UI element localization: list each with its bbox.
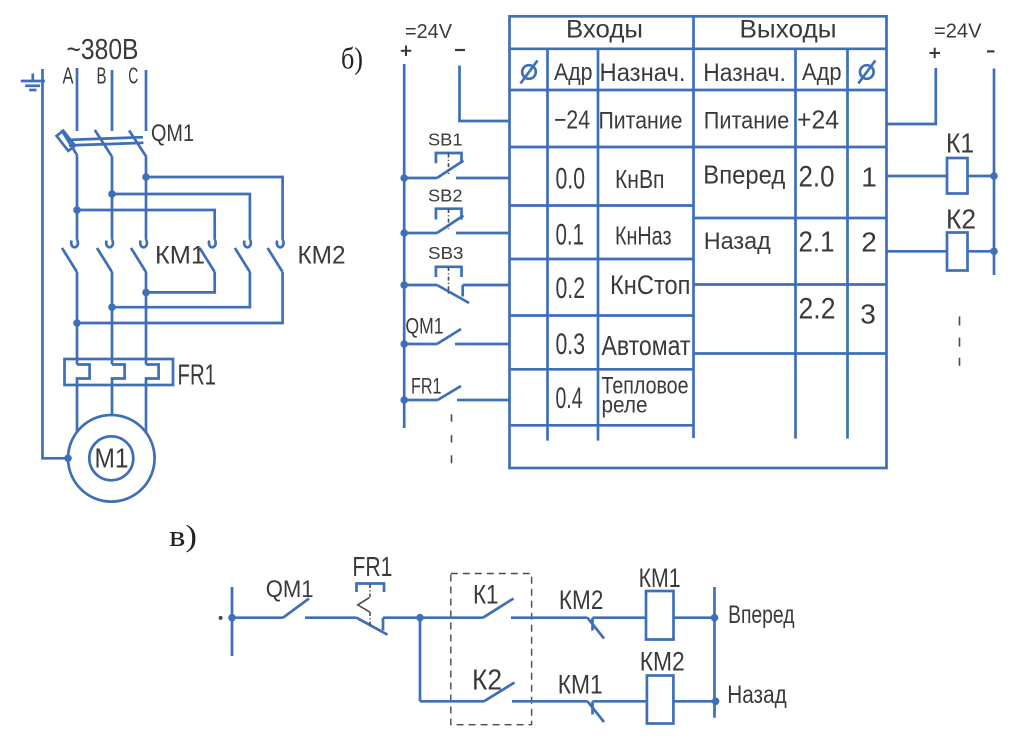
button SB1 xyxy=(400,153,509,182)
wire A to KM2 left contact xyxy=(77,210,215,233)
dashed group box xyxy=(451,574,532,725)
svg-text:Вперед: Вперед xyxy=(703,160,785,190)
wire KM2 c2 return to phase B xyxy=(112,272,250,307)
wire: ground rail xyxy=(43,69,69,458)
table row line in 0.1 xyxy=(510,258,694,261)
contact K1 ladder xyxy=(420,599,588,618)
svg-text:SB1: SB1 xyxy=(428,129,463,149)
svg-text:QM1: QM1 xyxy=(266,576,314,603)
wire phase B top xyxy=(111,70,114,131)
table frame xyxy=(510,16,887,468)
svg-text:2.2: 2.2 xyxy=(799,293,836,326)
wire phase C mid xyxy=(145,157,148,233)
wire coil KM1 to rail xyxy=(674,616,715,619)
wire phase C to FR1 xyxy=(145,272,148,365)
label plus right xyxy=(930,48,941,59)
coil KM2 xyxy=(647,676,674,724)
svg-text:~380В: ~380В xyxy=(67,34,139,66)
svg-text:FR1: FR1 xyxy=(352,551,392,582)
node on B xyxy=(108,303,116,311)
svg-text:К2: К2 xyxy=(472,665,502,697)
svg-text:=24V: =24V xyxy=(934,19,982,42)
node C feed xyxy=(142,173,150,181)
motor M1 inner circle xyxy=(89,436,133,480)
contact FR1 ladder NC xyxy=(357,584,421,635)
svg-text:КМ1: КМ1 xyxy=(558,670,603,700)
svg-text:−24: −24 xyxy=(554,105,590,135)
table row line header1 xyxy=(510,47,887,50)
label minus right xyxy=(987,50,995,52)
table row line out 2.1 xyxy=(694,283,887,286)
svg-text:0.2: 0.2 xyxy=(556,272,586,305)
svg-text:Питание: Питание xyxy=(704,108,790,135)
table column line in-diag xyxy=(546,49,549,441)
svg-text:КМ2: КМ2 xyxy=(640,646,685,676)
wire branch down xyxy=(419,618,422,702)
svg-text:FR1: FR1 xyxy=(178,360,217,392)
diag symbol in xyxy=(521,61,538,84)
wire -24 rail right xyxy=(993,69,996,276)
svg-text:FR1: FR1 xyxy=(411,374,442,399)
button SB2 xyxy=(400,209,509,237)
wire phase B mid xyxy=(111,156,114,233)
contactor KM2 contact 3 xyxy=(268,233,284,272)
coil KM1 xyxy=(646,591,674,640)
FR1 heater B xyxy=(112,365,125,416)
svg-text:0.4: 0.4 xyxy=(556,382,583,415)
svg-text:C: C xyxy=(128,63,138,89)
wire right rail xyxy=(713,587,716,718)
contactor KM2 contact 1 xyxy=(200,233,216,272)
svg-text:КнВп: КнВп xyxy=(615,164,665,194)
svg-text:Назад: Назад xyxy=(727,681,787,709)
svg-text:б): б) xyxy=(341,41,363,76)
svg-text:=24V: =24V xyxy=(405,20,452,43)
wire phase C top xyxy=(145,70,148,131)
table row line header2 xyxy=(510,89,887,92)
svg-text:0.3: 0.3 xyxy=(556,328,586,361)
label minus left xyxy=(455,49,465,51)
relay K1 xyxy=(887,158,998,194)
wire phase B to FR1 xyxy=(111,272,114,365)
table row line out 2.0 xyxy=(694,217,887,220)
svg-text:0.0: 0.0 xyxy=(556,163,586,196)
svg-text:Автомат: Автомат xyxy=(602,330,691,361)
breaker QM1 xyxy=(57,130,147,157)
contact K2 ladder xyxy=(484,683,588,702)
wire KM2 c3 return to phase A xyxy=(77,272,283,323)
table row line in 0.3 xyxy=(510,368,694,371)
wire KM2 c1 return to phase C xyxy=(146,272,215,292)
wire C to KM2 right contact xyxy=(146,177,283,233)
svg-text:Назнач.: Назнач. xyxy=(600,59,686,87)
wire -24 to table xyxy=(460,66,510,122)
node left rail xyxy=(228,614,236,622)
wire coil KM2 to rail xyxy=(673,700,715,703)
svg-text:М1: М1 xyxy=(95,443,129,474)
diag symbol out xyxy=(858,61,875,84)
contactor KM1 contact 3 xyxy=(131,233,147,272)
FR1 heater A xyxy=(77,365,90,434)
node Nazad xyxy=(712,698,720,706)
label plus left xyxy=(401,46,412,57)
table row line in 0.4 xyxy=(510,424,694,427)
svg-text:КМ1: КМ1 xyxy=(155,242,205,270)
wire left rail xyxy=(231,587,234,656)
contact QM1 aux xyxy=(400,329,509,348)
wire +24 right xyxy=(887,68,936,124)
svg-text:К1: К1 xyxy=(473,580,499,610)
button SB3 stop NC xyxy=(400,267,509,303)
node on A xyxy=(73,319,81,327)
wire to QM1 xyxy=(232,616,283,619)
contactor KM1 contact 2 xyxy=(97,233,113,272)
node: rail to motor xyxy=(64,455,72,463)
svg-text:Адр: Адр xyxy=(554,59,593,86)
wire rung2 xyxy=(420,700,484,703)
svg-text:0.1: 0.1 xyxy=(556,219,585,252)
svg-text:1: 1 xyxy=(861,162,877,193)
svg-text:2.1: 2.1 xyxy=(799,227,835,259)
wire phase A to FR1 xyxy=(76,272,79,365)
svg-text:2: 2 xyxy=(861,227,877,258)
thermal relay FR1 box xyxy=(65,359,174,385)
svg-text:Назнач.: Назнач. xyxy=(703,59,786,87)
table column line middle xyxy=(692,16,695,438)
table row line out 2.2 xyxy=(694,352,887,355)
svg-text:2.0: 2.0 xyxy=(799,161,835,194)
stray dot xyxy=(219,616,223,620)
svg-text:КМ2: КМ2 xyxy=(298,242,346,270)
svg-text:К2: К2 xyxy=(946,204,976,235)
node A feed xyxy=(73,206,81,214)
svg-text:Адр: Адр xyxy=(802,59,842,86)
svg-text:SB2: SB2 xyxy=(428,186,463,206)
contact QM1 ladder xyxy=(283,599,357,618)
svg-text:КнСтоп: КнСтоп xyxy=(610,270,691,300)
svg-text:Питание: Питание xyxy=(599,108,683,135)
table row line in 0.2 xyxy=(510,314,694,317)
svg-text:3: 3 xyxy=(860,299,876,330)
motor M1 outer circle xyxy=(68,415,155,502)
continuation dashes left xyxy=(451,414,453,463)
svg-text:Вперед: Вперед xyxy=(728,601,795,629)
table column line out-addr xyxy=(794,49,797,439)
svg-text:КнНаз: КнНаз xyxy=(615,221,672,251)
svg-text:Назад: Назад xyxy=(704,228,771,255)
svg-text:QM1: QM1 xyxy=(151,120,194,147)
wire +24 rail left xyxy=(403,64,406,428)
node Vpered xyxy=(711,614,719,622)
svg-text:реле: реле xyxy=(602,392,648,418)
node on C xyxy=(142,289,150,297)
svg-text:КМ1: КМ1 xyxy=(639,563,681,593)
wire B to KM2 middle contact xyxy=(112,194,250,233)
svg-text:SB3: SB3 xyxy=(428,243,464,263)
ground xyxy=(21,74,45,91)
relay K2 xyxy=(887,233,998,271)
FR1 heater C xyxy=(146,365,159,434)
svg-text:+24: +24 xyxy=(797,105,839,135)
svg-text:в): в) xyxy=(169,518,197,553)
svg-text:К1: К1 xyxy=(946,128,974,159)
contact KM2 NC ladder xyxy=(588,618,647,639)
svg-text:КМ2: КМ2 xyxy=(559,585,604,615)
svg-text:Входы: Входы xyxy=(566,16,643,44)
svg-text:QM1: QM1 xyxy=(406,314,444,339)
svg-text:Выходы: Выходы xyxy=(740,16,837,44)
contact FR1 aux xyxy=(400,386,509,404)
table row line in 0.0 xyxy=(510,204,694,207)
table column line in-addr xyxy=(597,49,600,441)
wire phase A mid xyxy=(76,155,79,233)
contactor KM1 contact 1 xyxy=(62,233,78,272)
svg-text:A: A xyxy=(63,63,74,89)
contact KM1 NC ladder xyxy=(588,701,647,722)
node B feed xyxy=(108,190,116,198)
table column line out-diag xyxy=(846,49,849,439)
continuation dashes right xyxy=(959,316,961,365)
contactor KM2 contact 2 xyxy=(235,233,251,272)
node branch xyxy=(416,614,424,622)
wire phase A top xyxy=(76,68,79,131)
table row line power xyxy=(510,146,887,149)
svg-text:B: B xyxy=(97,63,107,89)
